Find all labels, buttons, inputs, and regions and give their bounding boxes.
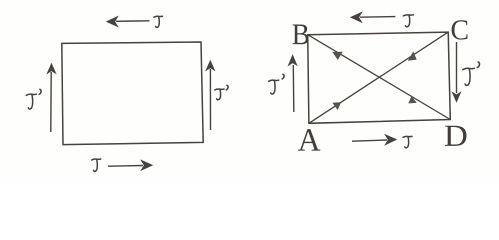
arrowhead on diagonal BD near B, pointing down (332, 52, 342, 60)
arrowhead on diagonal BD near D, pointing up (408, 96, 416, 103)
arrowhead on diagonal AC near A, pointing down (332, 102, 341, 110)
bottom shear arrow tau, pointing right (left figure) (108, 161, 152, 171)
corner label D (445, 126, 467, 146)
corner label C (452, 20, 468, 39)
label tau-prime left (left figure) (26, 94, 36, 109)
label tau-prime left (right figure) (269, 80, 279, 94)
label tau-prime right (right figure) (463, 68, 475, 85)
diagonal A to C (309, 32, 448, 123)
label tau top (left figure) (154, 16, 163, 27)
diagonal B to D (308, 35, 451, 120)
right element rectangle ABCD (308, 32, 451, 123)
bottom shear arrow tau, pointing right (right figure) (352, 135, 396, 145)
label tau top (right figure) (403, 15, 413, 27)
right tau-prime arrow, pointing down (right figure) (453, 42, 461, 102)
top shear arrow tau, pointing left (right figure) (351, 13, 395, 23)
label tau bottom (right figure) (403, 136, 412, 147)
left tau-prime arrow, pointing up (right figure) (289, 55, 297, 112)
label tau-prime right (left figure) (215, 89, 224, 100)
corner label B (293, 24, 309, 44)
left element rectangle (62, 42, 203, 145)
arrowhead on diagonal AC near C, pointing up (408, 51, 417, 60)
corner label A (298, 129, 320, 150)
left tau-prime arrow, pointing up (left figure) (48, 64, 56, 132)
label tau bottom (left figure) (92, 159, 101, 171)
right tau-prime arrow, pointing up (left figure) (206, 61, 214, 130)
top shear arrow tau, pointing left (left figure) (107, 17, 150, 27)
